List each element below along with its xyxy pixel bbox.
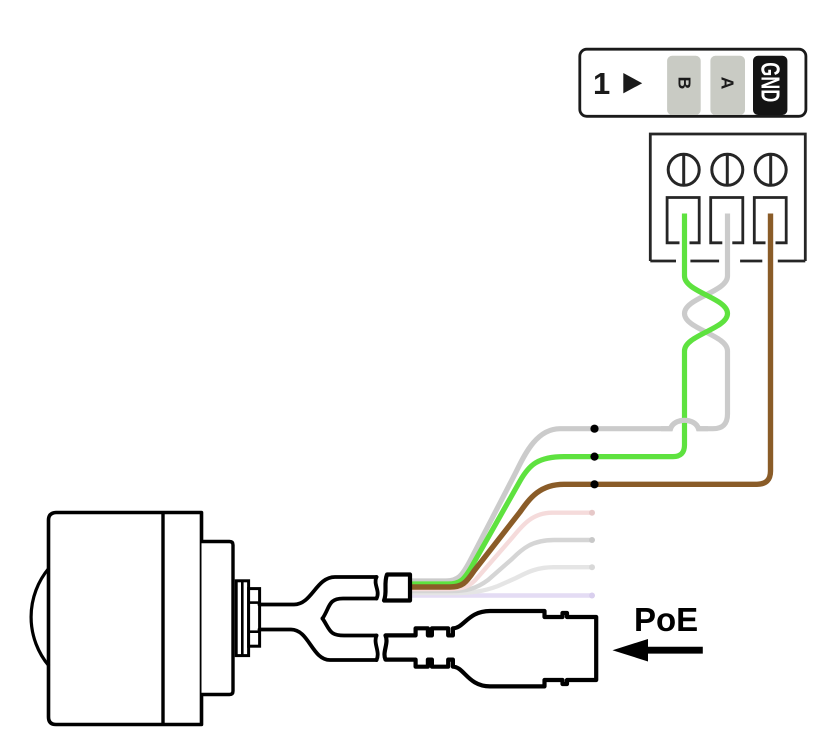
wire pink [410,513,592,589]
junction dot brown wire [590,480,598,488]
wire gray 3 [410,567,592,593]
camera lens dome [31,568,49,666]
chip GND [753,56,787,115]
cable break mark lower [376,636,378,661]
wire lavender [410,593,592,597]
camera body [49,513,202,725]
junction dot green wire [590,453,598,461]
cable break mark upper [376,577,378,599]
wire brown to terminal GND [410,214,771,588]
wire green to terminal B [410,214,728,585]
cable gland washer [236,581,248,656]
screw 1 [668,154,699,185]
svg-text:GND: GND [756,62,784,102]
junction dot gray wire [590,425,598,433]
wire entry 3 [754,198,786,243]
screw 3 [755,154,786,185]
PoE connector [384,611,596,686]
cable Y-split lower branch upper edge [323,619,377,636]
camera rear block [202,542,234,695]
terminal block bottom edge segments [650,260,676,263]
chip A [710,56,745,115]
cable Y-split bottom edge [260,630,377,661]
PoE arrow [646,647,703,654]
camera body seam [161,513,164,725]
svg-text:1: 1 [593,66,610,101]
label box [580,49,806,116]
ferrule [384,575,410,601]
pin 1 arrow marker [623,73,642,93]
cable Y-split upper branch lower edge [323,599,377,619]
wire gray hop over green [661,420,708,428]
chip B [667,56,701,115]
svg-text:B: B [675,77,695,90]
cable Y-split top edge [260,577,377,605]
terminal block outline [650,134,805,261]
wire white/gray to terminal A [410,214,728,582]
svg-text:PoE: PoE [634,601,698,638]
screw 2 [712,154,743,185]
svg-text:A: A [718,77,738,90]
wire gray 2 [410,540,592,591]
cable gland nut [249,589,260,647]
wire entry 1 [667,198,699,243]
wire entry 2 [711,198,743,243]
